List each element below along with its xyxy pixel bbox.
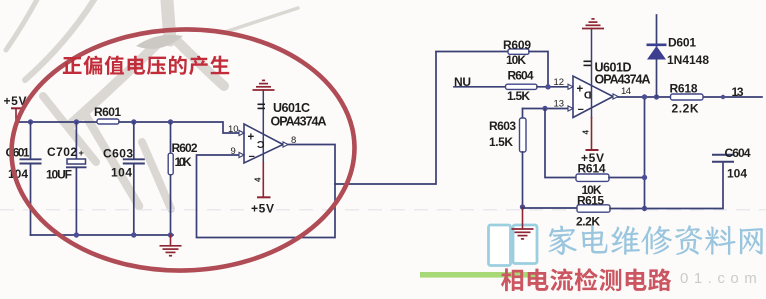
svg-text:+: + xyxy=(577,84,584,96)
svg-text:104: 104 xyxy=(111,166,132,180)
svg-text:D601: D601 xyxy=(668,36,696,50)
svg-text:−: − xyxy=(578,104,584,116)
svg-text:4: 4 xyxy=(582,130,591,135)
svg-text:D: D xyxy=(584,88,592,100)
svg-text:2.2K: 2.2K xyxy=(672,102,699,116)
svg-text:104: 104 xyxy=(727,167,747,181)
svg-text:10UF: 10UF xyxy=(46,168,72,182)
svg-text:C601: C601 xyxy=(6,146,30,160)
svg-text:R601: R601 xyxy=(94,105,121,119)
svg-text:R615: R615 xyxy=(577,194,604,208)
svg-text:−: − xyxy=(249,151,255,163)
svg-text:1N4148: 1N4148 xyxy=(667,53,709,67)
svg-text:C603: C603 xyxy=(103,147,133,161)
svg-text:C: C xyxy=(257,138,265,150)
svg-text:14: 14 xyxy=(621,86,631,97)
svg-text:+: + xyxy=(79,148,84,158)
svg-text:01.com: 01.com xyxy=(680,270,762,287)
svg-text:+5V: +5V xyxy=(251,202,274,216)
svg-text:10K: 10K xyxy=(506,53,526,67)
svg-text:10: 10 xyxy=(228,124,239,135)
svg-text:OPA4374A: OPA4374A xyxy=(271,115,327,129)
svg-text:OPA4374A: OPA4374A xyxy=(595,73,651,87)
svg-text:U601C: U601C xyxy=(273,101,310,115)
svg-text:9: 9 xyxy=(231,146,236,157)
svg-text:C604: C604 xyxy=(725,146,751,160)
svg-text:12: 12 xyxy=(554,77,565,88)
svg-text:4: 4 xyxy=(254,177,263,182)
svg-text:C702: C702 xyxy=(47,145,77,159)
svg-text:13: 13 xyxy=(554,99,565,110)
svg-text:+5V: +5V xyxy=(581,151,604,165)
svg-text:R618: R618 xyxy=(670,82,698,96)
svg-text:R609: R609 xyxy=(503,38,531,52)
svg-text:2.2K: 2.2K xyxy=(576,215,600,229)
svg-text:R604: R604 xyxy=(508,69,534,83)
svg-text:1.5K: 1.5K xyxy=(507,89,530,103)
svg-text:+: + xyxy=(248,132,255,144)
svg-text:R603: R603 xyxy=(489,119,516,133)
svg-text:10K: 10K xyxy=(175,155,192,169)
svg-text:R602: R602 xyxy=(172,141,198,155)
svg-text:8: 8 xyxy=(291,135,296,146)
svg-text:13: 13 xyxy=(732,85,744,99)
svg-text:1.5K: 1.5K xyxy=(489,135,513,149)
